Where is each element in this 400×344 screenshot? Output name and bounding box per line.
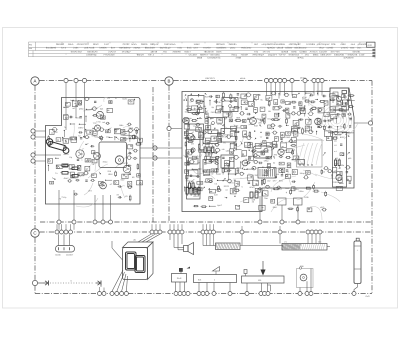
- resistor box: [294, 198, 303, 205]
- board A labels: [54, 114, 135, 201]
- wire stub: [61, 224, 63, 230]
- node C rail: [306, 230, 310, 234]
- svg-text:p69T: p69T: [241, 155, 246, 158]
- node bottom rail: [98, 292, 102, 296]
- svg-text:74.: 74.: [64, 126, 67, 129]
- wire stub: [155, 224, 157, 230]
- transistor T4: [94, 153, 101, 160]
- svg-text:o7: o7: [333, 107, 335, 110]
- svg-text:T3F..4: T3F..4: [148, 54, 155, 57]
- svg-text:NUMB: NUMB: [55, 254, 61, 257]
- svg-text:88no258T: 88no258T: [145, 47, 156, 50]
- main board B outline: [182, 88, 354, 212]
- node C rail: [69, 230, 73, 234]
- board B labels: [205, 95, 351, 209]
- AF output module: [333, 132, 347, 187]
- svg-text:17c: 17c: [284, 240, 287, 243]
- svg-text:B.8m: B.8m: [207, 169, 212, 172]
- section C bottom rail: [35, 286, 372, 294]
- rail below boards: [40, 221, 372, 223]
- node C rail: [176, 230, 180, 234]
- svg-text:.Tk5: .Tk5: [162, 50, 167, 53]
- svg-text:kpoT: kpoT: [217, 204, 222, 207]
- wire: [259, 196, 261, 212]
- node below B: [296, 205, 300, 224]
- svg-text:u55.: u55.: [226, 149, 230, 152]
- node bottom rail: [266, 292, 270, 296]
- svg-text:L61: L61: [133, 239, 136, 242]
- can box: [203, 130, 218, 144]
- svg-text:AM: AM: [29, 47, 32, 50]
- node bottom rail: [298, 292, 302, 296]
- node C rail: [205, 230, 209, 234]
- wire stub: [56, 224, 58, 230]
- transformer leads: [112, 270, 128, 291]
- battery B1: [354, 238, 370, 298]
- node bottom rail: [115, 292, 119, 296]
- node below A: [72, 190, 76, 224]
- node bottom rail: [212, 292, 216, 296]
- svg-text:AT4V: AT4V: [230, 143, 236, 146]
- svg-text:T7BF87: T7BF87: [203, 47, 212, 50]
- svg-text:RkV3: RkV3: [93, 43, 99, 46]
- svg-text:C88: C88: [300, 265, 303, 268]
- svg-text:nkRR: nkRR: [64, 153, 70, 156]
- svg-text:1.8: 1.8: [334, 144, 337, 147]
- switch SA-8: [172, 268, 187, 291]
- svg-text:RpRCB: RpRCB: [267, 47, 275, 50]
- section marker B: [165, 77, 173, 85]
- node on B left border: [167, 126, 182, 130]
- svg-text:3FA5u: 3FA5u: [297, 56, 304, 59]
- wire stub: [151, 224, 153, 230]
- svg-text:27B8: 27B8: [236, 56, 242, 59]
- svg-text:AnTA: AnTA: [229, 181, 235, 184]
- svg-text:B: B: [168, 79, 171, 84]
- svg-text:n-4: n-4: [334, 150, 337, 153]
- svg-text:p8T49: p8T49: [151, 50, 158, 53]
- svg-text:6mC: 6mC: [187, 47, 192, 50]
- svg-text:0167mRuA: 0167mRuA: [164, 43, 176, 46]
- dial scale right: [282, 240, 327, 250]
- svg-text:6.F.n: 6.F.n: [61, 47, 67, 50]
- can box: [208, 118, 225, 134]
- node bottom rail: [205, 292, 209, 296]
- node bottom rail: [259, 292, 263, 296]
- transistor T3: [95, 125, 101, 131]
- svg-text:8no.8BR0: 8no.8BR0: [46, 47, 57, 50]
- svg-text:752o8F: 752o8F: [241, 54, 249, 57]
- transformer upper lead: [112, 241, 123, 260]
- svg-text:BDCC: BDCC: [222, 167, 228, 170]
- svg-text:..n: ..n: [206, 126, 208, 129]
- svg-text:mu4: mu4: [351, 43, 356, 46]
- divider top rail: [40, 80, 373, 82]
- node below B: [258, 212, 262, 225]
- node C rail: [208, 230, 212, 234]
- wire stub: [209, 224, 211, 230]
- svg-text:Vk21T: Vk21T: [184, 50, 191, 53]
- divider B left vertical: [168, 86, 170, 223]
- wire stem: [319, 234, 321, 243]
- svg-text:CCoC: CCoC: [214, 140, 220, 143]
- divider left vertical: [34, 86, 36, 281]
- node C rail: [154, 230, 158, 234]
- svg-text:u91o8: u91o8: [277, 47, 284, 50]
- transistor T1: [76, 150, 84, 158]
- node C rail: [172, 230, 176, 234]
- wire stub: [173, 224, 175, 230]
- svg-text:C154: C154: [359, 54, 365, 57]
- node pin top of B: [320, 78, 324, 91]
- svg-text:mkA: mkA: [346, 131, 351, 134]
- svg-text:Co423T: Co423T: [319, 50, 328, 53]
- svg-text:C7m: C7m: [96, 121, 101, 124]
- node C rail: [212, 230, 216, 234]
- transistor T14: [187, 133, 194, 140]
- wire stem: [202, 234, 204, 245]
- svg-text:D45D: D45D: [215, 155, 221, 158]
- node pin left of A: [31, 153, 46, 157]
- node pin top of B: [273, 78, 277, 91]
- IF strip box: [187, 130, 201, 199]
- tuning table: [29, 42, 376, 59]
- wire stub: [241, 226, 243, 230]
- node bottom rail: [309, 292, 313, 296]
- svg-text:3Vou: 3Vou: [103, 160, 108, 163]
- node C rail: [310, 230, 314, 234]
- striped box: [258, 168, 276, 179]
- svg-text:084.682: 084.682: [56, 43, 65, 46]
- svg-text:A59nR0: A59nR0: [173, 50, 182, 53]
- wire stem: [315, 234, 317, 243]
- svg-text:TRR1: TRR1: [332, 181, 338, 184]
- svg-text:C23BD: C23BD: [300, 50, 308, 53]
- DIN speaker connector: [55, 234, 75, 256]
- tuning capacitor: [297, 140, 323, 167]
- svg-text:87A: 87A: [111, 47, 116, 50]
- jack ground stems: [100, 286, 105, 292]
- svg-text:0nA: 0nA: [285, 187, 289, 190]
- can box: [221, 129, 236, 143]
- svg-text:49R: 49R: [335, 163, 339, 166]
- node C rail: [150, 230, 154, 234]
- node C rail: [55, 230, 59, 234]
- wire node to jack: [38, 282, 43, 284]
- node pin top of B: [290, 78, 294, 91]
- svg-text:o5opCFT: o5opCFT: [268, 54, 278, 57]
- node bottom rail: [228, 292, 232, 296]
- wire: [65, 98, 67, 131]
- wire stub: [73, 224, 75, 230]
- node bottom rail: [102, 292, 106, 296]
- svg-text:VpRo8: VpRo8: [281, 50, 289, 53]
- svg-text:D2kBV: D2kBV: [285, 47, 293, 50]
- node bottom rail: [201, 292, 205, 296]
- svg-text:pDkT5VpmV: pDkT5VpmV: [317, 43, 330, 46]
- jack plug symbol right: [96, 281, 102, 286]
- wire stem: [206, 234, 208, 245]
- svg-text:8pR8: 8pR8: [63, 114, 69, 117]
- svg-text:TV1p: TV1p: [61, 196, 67, 199]
- svg-text:21A217: 21A217: [108, 50, 117, 53]
- svg-text:mn: mn: [117, 154, 120, 157]
- svg-text:DFTV: DFTV: [280, 54, 286, 57]
- svg-text:78C2k72n: 78C2k72n: [204, 50, 215, 53]
- node pin top of B: [264, 78, 268, 91]
- dark resistor pair: [250, 192, 258, 198]
- node C rail: [318, 230, 322, 234]
- svg-text:p96n: p96n: [79, 108, 84, 111]
- svg-text:o4c: o4c: [334, 140, 337, 143]
- svg-text:Dn: Dn: [239, 97, 242, 100]
- node pin top of B: [316, 78, 320, 91]
- node pin top of B: [282, 78, 286, 91]
- transistor T5: [123, 165, 131, 173]
- node pin left of A: [31, 129, 46, 133]
- coil L1 (slanted): [46, 139, 69, 154]
- loudspeaker LS1: [170, 234, 194, 254]
- node C rail: [201, 230, 205, 234]
- svg-text:FM: FM: [29, 43, 32, 46]
- svg-text:6nVA2.352: 6nVA2.352: [71, 50, 83, 53]
- svg-text:5VR: 5VR: [249, 105, 254, 108]
- resistor group A1: [60, 164, 79, 177]
- svg-text:6BnuR: 6BnuR: [137, 54, 144, 57]
- svg-text:4nAo9k79: 4nAo9k79: [343, 56, 354, 59]
- node link A-B upper: [140, 146, 182, 150]
- svg-text:m5ou: m5ou: [232, 54, 238, 57]
- svg-text:AVoC: AVoC: [64, 177, 70, 180]
- svg-text:369F6: 369F6: [141, 43, 148, 46]
- svg-text:FTkAC3o4: FTkAC3o4: [104, 54, 116, 57]
- svg-text:V0Ao: V0Ao: [299, 190, 305, 193]
- svg-text:mD936Rn: mD936Rn: [216, 47, 227, 50]
- small preset above bar2: [244, 270, 247, 277]
- wire stub: [213, 224, 215, 230]
- svg-text:k3BDA3B: k3BDA3B: [334, 54, 344, 57]
- svg-text:0k6V9n: 0k6V9n: [229, 43, 237, 46]
- svg-text:uD9.F1D8: uD9.F1D8: [84, 47, 95, 50]
- IF transformer S1: [188, 96, 204, 113]
- svg-text:5u3C: 5u3C: [122, 98, 127, 101]
- svg-text:o1R62: o1R62: [327, 47, 334, 50]
- node bottom rail: [124, 292, 128, 296]
- svg-text:98C: 98C: [208, 153, 212, 156]
- svg-text:189V: 189V: [108, 173, 113, 176]
- svg-text:9782CVB: 9782CVB: [348, 54, 358, 57]
- node pin top of A: [74, 78, 78, 97]
- svg-text:9Dm9: 9Dm9: [223, 133, 229, 136]
- svg-text:B4A1k6n.: B4A1k6n.: [211, 54, 221, 57]
- AF sub-board: [99, 142, 127, 168]
- node C rail: [64, 230, 68, 234]
- svg-text:5Vb: 5Vb: [318, 240, 321, 243]
- node battery terminal: [352, 292, 356, 296]
- svg-text:o6A.4.: o6A.4.: [240, 77, 246, 80]
- node pin top of A: [82, 78, 86, 97]
- svg-text:2on.: 2on.: [357, 47, 362, 50]
- resistor stripes bottom: [186, 186, 200, 196]
- svg-text:nC92: nC92: [123, 162, 129, 165]
- resistor group B1: [204, 145, 214, 154]
- svg-text:nDm7: nDm7: [249, 186, 255, 189]
- svg-text:R21: R21: [258, 279, 261, 282]
- node bottom rail: [186, 292, 190, 296]
- wire stub: [202, 224, 204, 230]
- node C rail: [314, 230, 318, 234]
- svg-text:TBR3B9VD: TBR3B9VD: [119, 47, 131, 50]
- node bottom rail: [120, 292, 124, 296]
- wire: [75, 98, 77, 119]
- node pin top of B: [303, 78, 307, 91]
- svg-text:62A261: 62A261: [353, 50, 362, 53]
- svg-text:DT91: DT91: [186, 105, 192, 108]
- wire stub: [159, 224, 161, 230]
- svg-text:B0C6B1mD: B0C6B1mD: [295, 47, 307, 50]
- svg-text:pn: pn: [323, 171, 325, 174]
- svg-text:CnAD5DF2C: CnAD5DF2C: [207, 56, 221, 59]
- wire stub: [58, 224, 60, 230]
- node bottom rail: [245, 292, 249, 296]
- svg-text:CAn: CAn: [92, 134, 96, 137]
- wire from node 280: [279, 234, 281, 243]
- svg-text:04nA: 04nA: [216, 50, 222, 53]
- node junction left: [32, 280, 37, 285]
- wire stem: [307, 234, 309, 243]
- svg-text:A7m1m: A7m1m: [310, 50, 318, 53]
- text above board B: [205, 77, 306, 81]
- svg-text:A.65: A.65: [177, 47, 182, 50]
- svg-text:u7V: u7V: [201, 187, 205, 190]
- FM front-end box: [330, 88, 349, 110]
- svg-text:6B273k.p2: 6B273k.p2: [160, 47, 172, 50]
- dotted link wire: [50, 280, 94, 284]
- rounded module: [253, 146, 272, 158]
- svg-text:Tn: Tn: [55, 172, 57, 175]
- svg-text:973B7013: 973B7013: [289, 54, 300, 57]
- svg-text:7RTp79npF: 7RTp79npF: [252, 54, 264, 57]
- wire stub: [65, 224, 67, 230]
- svg-text:DUMMY: DUMMY: [66, 254, 74, 257]
- node bottom rail: [110, 292, 114, 296]
- node bottom rail: [305, 292, 309, 296]
- svg-text:n48u: n48u: [340, 164, 345, 167]
- slide control R71: [242, 276, 285, 291]
- svg-text:9u: 9u: [260, 99, 262, 102]
- node below A: [109, 195, 113, 224]
- svg-text:4n: 4n: [211, 143, 213, 146]
- node C rail: [180, 230, 184, 234]
- svg-text:D5T: D5T: [194, 47, 199, 50]
- svg-text:A0uA: A0uA: [68, 43, 74, 46]
- svg-text:683F5T: 683F5T: [200, 54, 208, 57]
- divider A-B vertical: [152, 87, 154, 222]
- node below A: [93, 195, 97, 224]
- node bottom rail: [174, 292, 178, 296]
- svg-text:.k230n70p: .k230n70p: [86, 54, 97, 57]
- svg-text:R83p.oF: R83p.oF: [150, 43, 159, 46]
- can box: [203, 160, 218, 173]
- wire from node 242: [241, 234, 243, 245]
- wire stem: [311, 234, 313, 243]
- board A components: [48, 97, 143, 201]
- svg-text:1mBV: 1mBV: [194, 43, 201, 46]
- can box: [188, 124, 204, 140]
- svg-text:4F126p7: 4F126p7: [122, 50, 132, 53]
- tuning pointer arrow: [260, 261, 265, 276]
- svg-text:73m9: 73m9: [75, 117, 81, 120]
- svg-text:C8RV: C8RV: [78, 127, 84, 130]
- svg-text:0658: 0658: [197, 56, 203, 59]
- svg-text:4Cn51CF0T: 4Cn51CF0T: [77, 43, 90, 46]
- node right of B: [354, 121, 373, 125]
- svg-text:Vku7: Vku7: [319, 47, 325, 50]
- transistor T6: [100, 182, 107, 189]
- wire stub: [177, 224, 179, 230]
- svg-text:n56V: n56V: [341, 43, 347, 46]
- node below B: [280, 205, 284, 224]
- svg-text:3n77TnA: 3n77TnA: [331, 50, 341, 53]
- wire stub: [206, 224, 208, 230]
- node pin left of A: [31, 135, 46, 139]
- node bottom rail: [178, 292, 182, 296]
- svg-text:F447: F447: [104, 43, 110, 46]
- wire stub: [279, 226, 281, 230]
- dial scale left: [216, 243, 241, 250]
- svg-text:B.BC: B.BC: [188, 150, 193, 153]
- svg-text:9BR: 9BR: [236, 116, 241, 119]
- svg-text:B5C9CA3: B5C9CA3: [87, 50, 98, 53]
- slide control R64: [194, 267, 237, 292]
- wire: [84, 98, 86, 139]
- svg-text:o6781: o6781: [300, 77, 306, 80]
- IF transformer S3: [222, 98, 238, 112]
- svg-text:k: k: [214, 278, 215, 281]
- section C top rail: [40, 231, 373, 233]
- svg-text:4F7.V4: 4F7.V4: [263, 50, 271, 53]
- node bottom rail: [197, 292, 201, 296]
- svg-text:kmm.: kmm.: [132, 43, 138, 46]
- node C rail: [60, 230, 64, 234]
- transistor T15: [278, 149, 284, 155]
- wire stub: [169, 224, 171, 230]
- board B components: [184, 91, 355, 213]
- can box: [221, 155, 234, 168]
- svg-text:C6T02: C6T02: [123, 43, 131, 46]
- svg-text:BV5k: BV5k: [291, 50, 297, 53]
- svg-text:C6.u84T: C6.u84T: [189, 54, 198, 57]
- transistor T11: [183, 117, 189, 123]
- node bottom rail: [182, 292, 186, 296]
- board A copper traces: [62, 98, 131, 208]
- svg-text:pT47C: pT47C: [341, 47, 348, 50]
- svg-text:BC5T: BC5T: [277, 188, 283, 191]
- svg-text:A: A: [34, 79, 37, 84]
- svg-text:09BC: 09BC: [313, 54, 319, 57]
- node pin top of A: [64, 78, 68, 97]
- tuner board A outline: [46, 98, 141, 205]
- thermistor box: [278, 198, 287, 205]
- transistor T2: [96, 111, 103, 118]
- small ring: [132, 135, 136, 139]
- board B copper traces: [183, 90, 357, 220]
- node bottom rail: [263, 292, 267, 296]
- svg-text:Fm2o8m: Fm2o8m: [306, 43, 315, 46]
- node pin top of B: [269, 78, 273, 91]
- svg-text:.RBC3D73: .RBC3D73: [205, 77, 215, 80]
- transistor T13: [315, 118, 322, 125]
